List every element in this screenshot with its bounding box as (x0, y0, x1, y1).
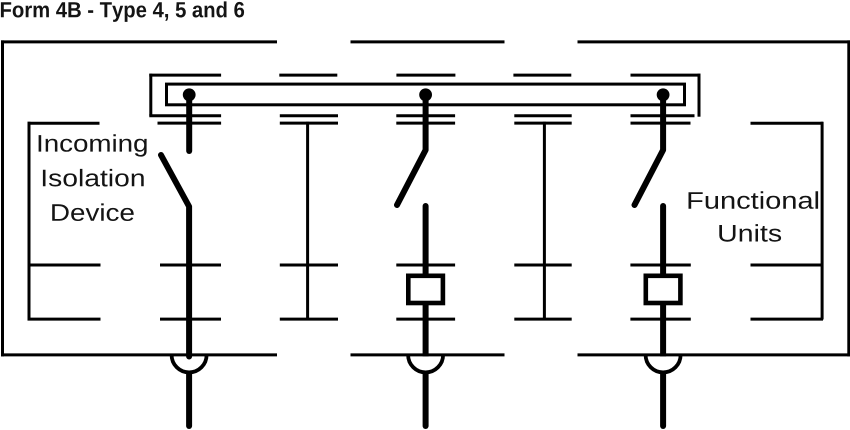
compartment top row seg 4 (396, 122, 455, 125)
cable gland arc 3 (646, 355, 681, 373)
busbar trunking outer box right edge (698, 74, 701, 117)
right compartment wall (821, 122, 824, 320)
enclosure top border segment 1 (1, 40, 277, 43)
compartment lower row seg 2 (160, 318, 221, 321)
isolator Q1 blade (161, 155, 189, 357)
compartment top row seg 1 (left E top) (28, 122, 100, 125)
busbar node 1 (183, 88, 196, 101)
busbar outer box bottom seg 5 (631, 114, 695, 117)
left compartment wall (28, 122, 31, 320)
riser wire 2 + isolator Q2 blade (397, 95, 426, 205)
internal wall 1 (306, 122, 309, 320)
busbar outer box bottom seg 3 (396, 114, 455, 117)
internal wall 2 (543, 122, 546, 320)
busbar node 3 (657, 88, 670, 101)
outgoing cable stub 2 (423, 374, 429, 426)
compartment mid row seg 3 (280, 264, 338, 267)
cable gland arc 1 (172, 355, 207, 373)
cable gland arc 2 (408, 355, 443, 373)
busbar inner box (167, 84, 685, 105)
riser wire 3 + isolator Q3 blade (635, 95, 664, 205)
busbar node 2 (419, 88, 432, 101)
enclosure bottom border segment 1 (1, 353, 277, 356)
title: Form 4B - Type 4, 5 and 6 (1, 1, 244, 22)
enclosure left border (1, 40, 4, 356)
fuse/device box F2 (646, 276, 681, 303)
functional unit wire 3 upper (660, 206, 666, 274)
compartment top row seg 6 (631, 122, 691, 125)
outgoing cable stub 1 (186, 374, 192, 426)
compartment mid row seg 5 (514, 264, 571, 267)
busbar outer box bottom seg 2 (280, 114, 338, 117)
incoming riser wire 1 (186, 95, 192, 151)
compartment top row seg 2 (158, 122, 222, 125)
compartment lower row seg 1 (28, 318, 101, 321)
busbar trunking outer box left edge (149, 74, 152, 116)
enclosure top border segment 3 (578, 40, 850, 43)
enclosure top border segment 2 (351, 40, 505, 43)
compartment lower row seg 4 (396, 318, 455, 321)
compartment mid row seg 6 (630, 264, 690, 267)
busbar outer box top seg 5 (631, 74, 701, 77)
compartment mid row seg 2 (160, 264, 221, 267)
compartment lower row seg 3 (280, 318, 338, 321)
compartment mid row seg 4 (396, 264, 455, 267)
compartment top row seg 5 (514, 122, 571, 125)
functional unit wire 2 lower (423, 305, 429, 356)
busbar outer box bottom seg 4 (514, 114, 571, 117)
compartment mid row seg 7 (751, 264, 824, 267)
enclosure right border (847, 40, 850, 356)
compartment lower row seg 6 (630, 318, 690, 321)
label: Incoming Isolation Device (39, 134, 147, 221)
busbar outer box top seg 2 (279, 74, 337, 77)
enclosure bottom border segment 2 (351, 353, 505, 356)
compartment lower row seg 7 (751, 318, 824, 321)
functional unit wire 2 upper (423, 206, 429, 274)
label: Functional Units (689, 191, 819, 241)
compartment top row seg 7 (right E top) (751, 122, 824, 125)
busbar outer box bottom seg 1 (149, 114, 221, 117)
functional unit wire 3 lower (660, 305, 666, 356)
fuse/device box F1 (408, 276, 443, 303)
busbar outer box top seg 1 (149, 74, 221, 77)
busbar outer box top seg 4 (513, 74, 571, 77)
outgoing cable stub 3 (660, 374, 666, 426)
enclosure bottom border segment 3 (578, 353, 850, 356)
busbar outer box top seg 3 (396, 74, 455, 77)
compartment lower row seg 5 (514, 318, 571, 321)
compartment top row seg 3 (280, 122, 338, 125)
compartment mid row seg 1 (28, 264, 101, 267)
